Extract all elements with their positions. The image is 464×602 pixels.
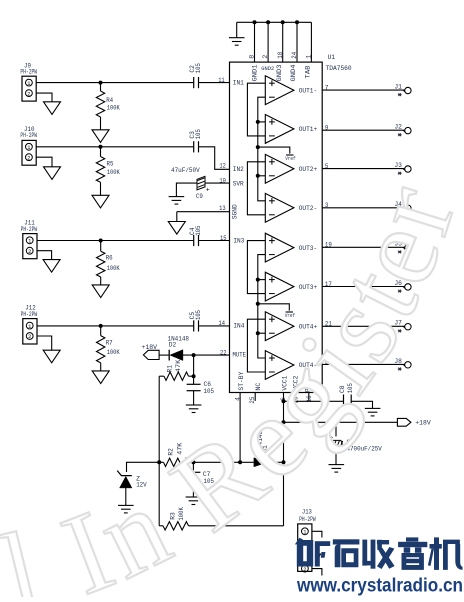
svg-text:PH-2PW: PH-2PW bbox=[20, 69, 37, 76]
wire +18V to D2 bbox=[159, 354, 169, 356]
wire bbox=[258, 332, 266, 334]
svg-text:15: 15 bbox=[220, 235, 227, 242]
svg-text:SGND: SGND bbox=[231, 204, 238, 219]
svg-text:PH-2PW: PH-2PW bbox=[21, 311, 38, 318]
junction bbox=[256, 120, 260, 124]
svg-text:11: 11 bbox=[218, 77, 225, 84]
wire GND pin stub bbox=[282, 22, 284, 62]
connector J1 bbox=[403, 87, 411, 93]
junction bbox=[192, 353, 196, 357]
ground C9 bbox=[169, 197, 185, 205]
label * bbox=[398, 330, 402, 333]
svg-text:8: 8 bbox=[249, 55, 256, 59]
junction ST-BY node bbox=[238, 460, 242, 464]
wire OUT to J6 bbox=[322, 286, 404, 288]
connector J8 bbox=[403, 362, 411, 368]
junction bbox=[157, 460, 161, 464]
svg-text:PH-2PW: PH-2PW bbox=[21, 226, 38, 233]
resistor R3 100K bbox=[158, 462, 160, 526]
svg-text:OUT3-: OUT3- bbox=[299, 245, 318, 252]
junction bbox=[282, 399, 286, 403]
junction bbox=[99, 145, 103, 149]
ground R4 bbox=[92, 130, 109, 143]
wire feedback chain 3-4 bbox=[258, 255, 266, 358]
ground C8 bbox=[365, 408, 381, 416]
node Vref 2 bbox=[258, 304, 290, 311]
svg-text:2: 2 bbox=[262, 55, 269, 59]
wire C9 to ground bbox=[176, 183, 196, 196]
zener diode Z 12V bbox=[117, 471, 132, 506]
junction bbox=[256, 331, 260, 335]
wire J10.1 to C3 bbox=[36, 146, 193, 148]
svg-text:10: 10 bbox=[219, 178, 226, 185]
svg-text:C9: C9 bbox=[196, 193, 203, 200]
wire J13.1 stub bbox=[312, 531, 322, 537]
svg-text:OUT2-: OUT2- bbox=[299, 205, 318, 212]
svg-text:47uF/50V: 47uF/50V bbox=[171, 167, 200, 174]
wire R3 to +18V rail bbox=[189, 525, 284, 527]
wire bbox=[258, 279, 266, 281]
resistor R6 bbox=[100, 241, 102, 252]
svg-text:MUTE: MUTE bbox=[233, 351, 247, 358]
connector J2 bbox=[403, 127, 411, 133]
connector J4 bbox=[403, 205, 411, 211]
svg-text:OUT1+: OUT1+ bbox=[299, 126, 318, 133]
connector J13 PH-2PW bbox=[298, 524, 312, 573]
wire input net bbox=[247, 162, 265, 215]
wire input net bbox=[247, 241, 265, 294]
wire J13.2 stub bbox=[312, 569, 322, 576]
svg-text:100K: 100K bbox=[107, 104, 120, 111]
junction bbox=[253, 20, 257, 24]
svg-text:GND2: GND2 bbox=[261, 65, 274, 72]
svg-text:OUT1-: OUT1- bbox=[299, 87, 318, 94]
connector J7 bbox=[403, 324, 411, 330]
wire bbox=[176, 212, 178, 222]
wire bbox=[258, 121, 266, 123]
connector J9 PH-2PW bbox=[22, 76, 36, 101]
capacitor C3 bbox=[194, 141, 199, 152]
connector J12 PH-2PW bbox=[23, 319, 37, 344]
wire C4 to IN3 pin 15 bbox=[199, 240, 230, 242]
svg-text:J1: J1 bbox=[394, 84, 402, 91]
wire R1 to standby node bbox=[158, 376, 160, 462]
connector J5 bbox=[403, 245, 411, 251]
ground C7 bbox=[186, 497, 202, 505]
svg-text:7: 7 bbox=[325, 84, 329, 91]
wire SGND pin 13 to ground bbox=[177, 211, 230, 213]
wire C3 to IN2 pin 12 bbox=[199, 147, 230, 170]
svg-text:1: 1 bbox=[303, 530, 306, 536]
wire NC pin 25 stub bbox=[254, 393, 256, 401]
svg-text:2: 2 bbox=[28, 334, 31, 340]
svg-text:1: 1 bbox=[28, 324, 31, 330]
svg-text:SVR: SVR bbox=[233, 180, 244, 187]
svg-text:105: 105 bbox=[195, 129, 202, 139]
op-amp IC U1 TDA7560 bbox=[230, 62, 323, 392]
resistor R7 bbox=[100, 326, 102, 336]
label * bbox=[398, 172, 402, 175]
svg-text:13: 13 bbox=[219, 205, 226, 212]
wire VCC1 pin 6 stub bbox=[283, 393, 285, 402]
svg-text:100K: 100K bbox=[107, 265, 120, 272]
ground C1 bbox=[329, 465, 345, 473]
wire OUT to J7 bbox=[322, 325, 404, 327]
op-amp U1 amp OUT1+ bbox=[265, 115, 294, 144]
junction bbox=[281, 20, 285, 24]
label * bbox=[398, 133, 402, 136]
capacitor C6 bbox=[193, 376, 195, 384]
wire C5 to IN4 pin 14 bbox=[199, 325, 230, 327]
capacitor C4 bbox=[194, 235, 199, 246]
wire J12.1 to C5 bbox=[37, 325, 193, 327]
resistor R1 47K bbox=[159, 375, 164, 377]
wire J10.2 to ground bbox=[36, 157, 52, 167]
op-amp U1 amp OUT1- bbox=[265, 76, 294, 105]
wire OUT to J3 bbox=[322, 168, 404, 170]
svg-text:2: 2 bbox=[28, 249, 31, 255]
ground J12.2 bbox=[43, 350, 60, 363]
junction node A bbox=[99, 81, 103, 85]
wire top ground bus bbox=[237, 21, 312, 23]
svg-text:100K: 100K bbox=[107, 169, 120, 176]
power +18V tag right bbox=[397, 418, 411, 426]
wire GND pin stub bbox=[296, 22, 298, 62]
svg-text:1: 1 bbox=[306, 55, 313, 59]
svg-text:105: 105 bbox=[195, 225, 202, 235]
junction bbox=[295, 20, 299, 24]
resistor R4 bbox=[100, 83, 102, 91]
connector J10 PH-2PW bbox=[22, 140, 36, 165]
svg-text:14: 14 bbox=[219, 320, 226, 327]
svg-text:+18V: +18V bbox=[142, 344, 158, 351]
capacitor C2 bbox=[194, 77, 199, 88]
wire J11.2 to ground bbox=[37, 251, 52, 260]
svg-text:5: 5 bbox=[325, 163, 329, 170]
svg-text:Vref: Vref bbox=[285, 156, 296, 162]
junction bbox=[99, 239, 103, 243]
svg-text:+18V: +18V bbox=[415, 419, 431, 426]
connector J11 PH-2PW bbox=[23, 234, 37, 259]
wire D2 to MUTE pin 22 bbox=[183, 354, 230, 356]
ground R5 bbox=[92, 195, 109, 208]
svg-text:2: 2 bbox=[27, 155, 30, 161]
wire GND pin stub bbox=[310, 22, 312, 62]
label * bbox=[398, 93, 402, 96]
svg-text:R1: R1 bbox=[167, 365, 174, 373]
junction bbox=[282, 460, 286, 464]
logo text kuangshi shouyinji bbox=[295, 537, 463, 570]
resistor R5 bbox=[100, 147, 102, 157]
svg-text:105: 105 bbox=[204, 388, 215, 395]
svg-text:PH-2PW: PH-2PW bbox=[299, 516, 316, 523]
capacitor C7 bbox=[192, 462, 194, 472]
wire J11.1 to C4 bbox=[37, 240, 193, 242]
label * bbox=[398, 290, 402, 293]
svg-text:J3: J3 bbox=[394, 162, 402, 169]
svg-text:R5: R5 bbox=[107, 160, 114, 167]
svg-text:47K: 47K bbox=[175, 359, 182, 372]
svg-text:1: 1 bbox=[27, 81, 30, 87]
svg-text:TDA7560: TDA7560 bbox=[326, 65, 352, 72]
junction bbox=[334, 420, 338, 424]
wire bbox=[236, 22, 238, 37]
svg-text:www.crystalradio.cn: www.crystalradio.cn bbox=[296, 575, 463, 596]
wire feedback chain 1-2 bbox=[258, 97, 266, 201]
svg-text:1: 1 bbox=[27, 145, 30, 151]
svg-text:12: 12 bbox=[219, 163, 226, 170]
ground zener bbox=[118, 505, 134, 513]
junction bbox=[256, 302, 260, 306]
wire J12.2 to ground bbox=[37, 336, 52, 350]
wire bbox=[193, 355, 195, 376]
ground R7 bbox=[92, 371, 109, 384]
diode D1 1N4148 bbox=[240, 461, 254, 463]
wire to zener bbox=[127, 462, 160, 472]
wire input net bbox=[247, 319, 265, 372]
wire GND pin stub bbox=[267, 22, 269, 62]
junction bbox=[256, 278, 260, 282]
wire J9.2 to ground bbox=[36, 93, 52, 102]
label * bbox=[316, 554, 321, 559]
capacitor C9 47uF/50V electrolytic bbox=[197, 176, 205, 190]
svg-text:GND1: GND1 bbox=[251, 64, 258, 81]
svg-text:105: 105 bbox=[195, 63, 202, 73]
wire OUT to J4 bbox=[322, 207, 404, 209]
svg-text:IN4: IN4 bbox=[233, 323, 244, 330]
label * bbox=[398, 251, 402, 254]
junction bbox=[191, 460, 195, 464]
svg-text:4700uF/25V: 4700uF/25V bbox=[347, 446, 382, 453]
ground R6 bbox=[92, 285, 109, 298]
wire +18V rail bbox=[284, 421, 398, 423]
ground J10.2 bbox=[44, 167, 61, 180]
svg-text:U1: U1 bbox=[328, 54, 336, 61]
connector J3 bbox=[403, 166, 411, 172]
svg-text:3: 3 bbox=[325, 202, 329, 209]
diode D2 1N4148 bbox=[169, 350, 183, 361]
wire to ST-BY node bbox=[193, 461, 240, 463]
svg-text:GND4: GND4 bbox=[290, 64, 297, 81]
wire VCC2 pin 20 stub bbox=[292, 393, 294, 402]
wire VCC bus to C8 bbox=[284, 400, 344, 402]
svg-text:2: 2 bbox=[303, 567, 306, 573]
svg-text:24: 24 bbox=[291, 52, 298, 59]
ground J9.2 bbox=[44, 102, 61, 115]
capacitor C1 4700uF/25V bbox=[335, 422, 337, 436]
svg-text:R4: R4 bbox=[106, 97, 113, 104]
resistor R2 47K bbox=[159, 461, 163, 463]
svg-text:22: 22 bbox=[220, 349, 227, 356]
svg-text:OUT2+: OUT2+ bbox=[299, 166, 318, 173]
label * bbox=[398, 211, 402, 214]
wire C9 to SVR pin 10 bbox=[205, 182, 229, 184]
svg-text:+: + bbox=[206, 186, 210, 193]
connector J6 bbox=[403, 284, 411, 290]
svg-text:2: 2 bbox=[27, 91, 30, 97]
junction bbox=[256, 145, 260, 149]
ground top bbox=[229, 38, 245, 46]
svg-text:J2: J2 bbox=[394, 124, 402, 131]
node Vref 1 bbox=[258, 147, 290, 154]
svg-text:1: 1 bbox=[28, 239, 31, 245]
svg-text:9: 9 bbox=[325, 125, 329, 132]
op-amp U1 amp OUT2- bbox=[265, 193, 294, 222]
svg-text:IN2: IN2 bbox=[233, 166, 244, 173]
svg-text:IN1: IN1 bbox=[233, 80, 244, 87]
wire PW-GND pin 16 stub bbox=[308, 393, 310, 402]
svg-text:TAB: TAB bbox=[304, 65, 311, 78]
capacitor C8 bbox=[344, 395, 352, 409]
power +18V tag left bbox=[143, 350, 159, 359]
wire OUT to J2 bbox=[322, 129, 404, 131]
wire GND pin stub bbox=[254, 22, 256, 62]
svg-text:R7: R7 bbox=[106, 339, 113, 346]
junction bbox=[192, 374, 196, 378]
wire OUT to J5 bbox=[322, 246, 404, 248]
wire bbox=[258, 175, 266, 177]
svg-text:PH-2PW: PH-2PW bbox=[20, 132, 37, 139]
junction bbox=[256, 174, 260, 178]
op-amp U1 amp OUT3- bbox=[265, 233, 294, 262]
label * bbox=[398, 368, 402, 371]
ground SGND bbox=[168, 222, 185, 235]
wire C2 to IN1 pin 11 bbox=[199, 82, 230, 84]
svg-text:R6: R6 bbox=[106, 254, 113, 261]
junction bbox=[99, 324, 103, 328]
svg-text:IN3: IN3 bbox=[233, 238, 244, 245]
svg-text:100K: 100K bbox=[107, 349, 120, 356]
wire J9.1 to C2 bbox=[36, 82, 193, 84]
wire +18V riser bbox=[283, 401, 285, 526]
wire OUT to J8 bbox=[322, 363, 404, 365]
wire OUT to J1 bbox=[322, 89, 404, 91]
svg-text:GND3: GND3 bbox=[276, 64, 283, 81]
wire ST-BY pin 4 stub bbox=[239, 393, 241, 463]
svg-text:18: 18 bbox=[277, 52, 284, 59]
svg-text:105: 105 bbox=[195, 310, 202, 320]
wire C8 to ground bbox=[351, 401, 372, 408]
svg-text:D2: D2 bbox=[169, 341, 177, 348]
ground C6 bbox=[186, 405, 202, 413]
junction bbox=[266, 20, 270, 24]
op-amp U1 amp OUT2+ bbox=[265, 154, 294, 183]
wire input net bbox=[247, 83, 265, 136]
svg-text:J13: J13 bbox=[302, 508, 312, 515]
op-amp U1 amp OUT4+ bbox=[265, 312, 294, 341]
junction bbox=[282, 420, 286, 424]
op-amp U1 amp OUT3+ bbox=[265, 272, 294, 301]
op-amp U1 amp OUT4- bbox=[265, 351, 294, 380]
ground J11.2 bbox=[43, 260, 60, 273]
capacitor C5 bbox=[194, 320, 199, 331]
